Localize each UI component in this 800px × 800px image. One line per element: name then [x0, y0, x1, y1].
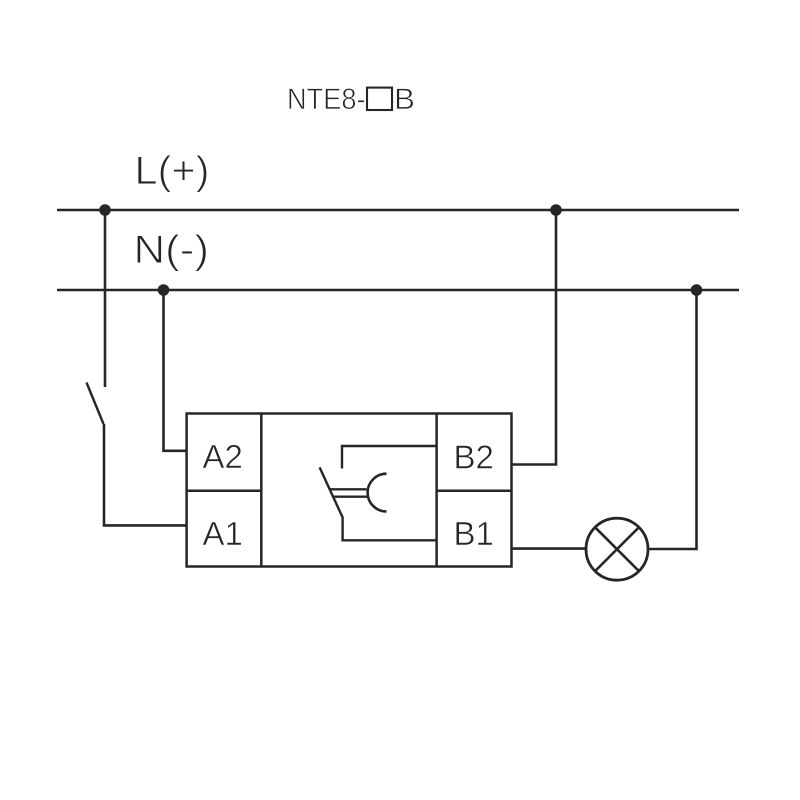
node N-A2 junction: [158, 284, 170, 296]
title NTE8-[]B: [287, 83, 415, 116]
svg-text:A1: A1: [203, 515, 243, 552]
title box symbol: [367, 88, 392, 110]
svg-text:L(+): L(+): [135, 149, 210, 193]
svg-text:B: B: [394, 83, 415, 116]
terminal divider B column: [435, 414, 438, 567]
relay contact blade: [320, 467, 437, 540]
svg-text:B1: B1: [454, 515, 494, 552]
divider A2/A1: [187, 490, 262, 493]
wire B2 to L bus: [512, 210, 557, 465]
svg-text:B2: B2: [454, 439, 494, 476]
lamp E1 circle: [586, 518, 648, 580]
wire switch to A1: [104, 424, 187, 525]
divider B2/B1: [437, 490, 512, 493]
node N-lamp junction: [691, 284, 703, 296]
svg-text:A2: A2: [203, 438, 243, 475]
terminal divider A column: [260, 414, 263, 567]
svg-text:N(-): N(-): [134, 228, 210, 272]
switch S1 blade: [87, 383, 104, 425]
contact bar upper: [331, 488, 367, 490]
relay box outline: [187, 414, 512, 567]
wire L bus: [57, 209, 739, 212]
wire N to A2: [164, 290, 187, 451]
node L-switch junction: [99, 204, 111, 216]
wire B1 to lamp: [512, 547, 587, 550]
lamp cross stroke 2: [595, 527, 639, 571]
svg-text:NTE8-: NTE8-: [287, 83, 366, 116]
contact bar lower: [334, 496, 368, 498]
wire L to switch: [104, 210, 107, 387]
relay contact top bracket: [342, 446, 437, 469]
node L-B2 junction: [550, 204, 562, 216]
wire lamp to N bus: [649, 290, 696, 549]
lamp cross stroke 1: [595, 527, 639, 571]
wire N bus: [57, 289, 739, 292]
relay coil semicircle: [368, 474, 387, 512]
